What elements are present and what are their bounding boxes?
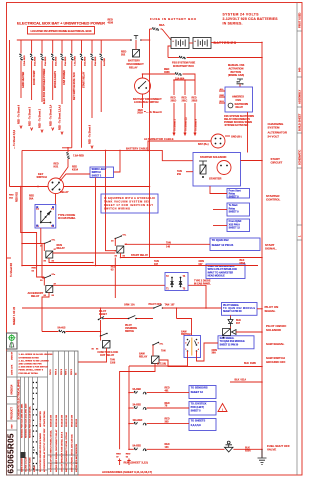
pushbutton glyph	[237, 79, 244, 84]
svg-text:BATTERIES: BATTERIES	[214, 41, 237, 45]
svg-text:— To Sheet 3,5,9: — To Sheet 3,5,9	[13, 129, 16, 149]
svg-text:STARTER SOLENOID: STARTER SOLENOID	[200, 155, 226, 159]
svg-text:ELEC BOX SWITCHED POWER: ELEC BOX SWITCHED POWER	[43, 68, 46, 104]
svg-text:REVISED PER ECN 4312 AND 4250: REVISED PER ECN 4312 AND 4250	[25, 403, 28, 438]
alternator cable wire	[148, 141, 211, 150]
svg-text:7.5A-RED: 7.5A-RED	[74, 56, 77, 66]
svg-text:PORTION OF KEY SWITCH PANEL DE: PORTION OF KEY SWITCH PANEL DETAIL	[50, 429, 53, 472]
svg-text:5A-RED: 5A-RED	[133, 445, 142, 448]
svg-text:1108: 1108	[110, 361, 116, 364]
wire diode box down	[40, 228, 42, 244]
svg-text:LOCKABLE SWITCH: LOCKABLE SWITCH	[134, 101, 159, 104]
svg-text:SWITCH: SWITCH	[92, 172, 101, 174]
blue box from IQAN XS2	[227, 219, 250, 232]
fuse bank wire 4	[52, 40, 54, 54]
wire solenoid feed from diode	[230, 327, 232, 329]
svg-text:2,3,4,5,9: 2,3,4,5,9	[191, 423, 202, 427]
AMEREX pins	[219, 91, 225, 103]
wire stub to start relay box	[213, 209, 227, 211]
svg-text:40A-RED: 40A-RED	[55, 56, 58, 66]
svg-text:50A-RED: 50A-RED	[34, 56, 37, 66]
title block outline	[7, 351, 79, 475]
wire below fuse 1	[20, 61, 22, 99]
wire diagonal to battery 1	[162, 29, 171, 40]
wire key switch bottom	[55, 194, 57, 205]
svg-text:REV: REV	[12, 424, 14, 429]
wire below lockable switch	[142, 94, 144, 108]
pilot override switch	[128, 318, 130, 320]
svg-text:GRID HEATER: GRID HEATER	[22, 71, 25, 88]
svg-text:017: 017	[236, 322, 241, 325]
fuse column feeder dots	[128, 392, 130, 394]
svg-text:RED - To Sheet 2,3,4,6: RED - To Sheet 2,3,4,6	[59, 104, 62, 130]
svg-text:RED: RED	[126, 454, 131, 456]
svg-text:201B: 201B	[192, 99, 198, 102]
svg-text:60A: 60A	[159, 23, 165, 27]
edge connector To Sheet 8,2	[7, 257, 12, 259]
fuse bank wire 9	[100, 40, 102, 54]
svg-text:SHEET 9: SHEET 9	[229, 211, 240, 214]
svg-text:7.5A-RED: 7.5A-RED	[73, 155, 84, 158]
svg-text:BLK: BLK	[244, 362, 249, 365]
svg-text:DWG BY: DWG BY	[12, 351, 14, 360]
wire start relay coil down	[120, 253, 122, 258]
svg-text:BATTERY CABLE: BATTERY CABLE	[126, 146, 148, 150]
svg-text:157: 157	[171, 304, 176, 307]
svg-text:BUILD SHEET: BUILD SHEET	[297, 113, 301, 131]
projection symbol trapezoid	[10, 343, 14, 347]
wire AMEREX down to starter	[247, 112, 249, 153]
svg-text:UPDATE DETAIL: UPDATE DETAIL	[43, 410, 46, 427]
svg-text:104: 104	[165, 446, 170, 449]
blue box to sensors	[189, 386, 216, 399]
fuse 3A-RED row	[129, 407, 134, 409]
wire key switch right	[64, 186, 150, 188]
wire start relay down RED 03	[114, 258, 116, 299]
relay run relay K1 coil	[46, 251, 53, 258]
wire accessory output ORN	[53, 284, 165, 286]
svg-text:RELAY: RELAY	[236, 106, 244, 109]
svg-text:4156: 4156	[164, 71, 170, 74]
fuse 10A-RED row	[129, 423, 134, 425]
warning triangle	[218, 404, 227, 412]
svg-text:TAN: TAN	[166, 241, 171, 244]
svg-text:FOR RELAY DETAIL: FOR RELAY DETAIL	[19, 372, 39, 375]
svg-text:RELOCATED GROUND PER ECN 04565: RELOCATED GROUND PER ECN 04565	[39, 432, 42, 472]
svg-text:2-12VOLT 925 CCA BATTERIES: 2-12VOLT 925 CCA BATTERIES	[223, 17, 279, 21]
svg-text:RELAY: RELAY	[139, 356, 148, 359]
merge node wires key switch feed	[62, 148, 72, 152]
wire run relay coil bottom	[49, 258, 93, 263]
fuse F13 (30A-RED)	[41, 54, 43, 57]
svg-text:2. ALL WIRES TO BE LOOMED: 2. ALL WIRES TO BE LOOMED	[19, 359, 50, 362]
svg-text:353: 353	[165, 420, 170, 423]
fuse F17 (20A-RED)	[80, 54, 82, 57]
svg-text:IN SERIES.: IN SERIES.	[223, 21, 243, 25]
connector stub 2	[127, 459, 130, 466]
wire ORN 11A pilot line	[22, 307, 153, 309]
wire override riser	[176, 308, 178, 319]
svg-text:013B: 013B	[250, 362, 256, 365]
fuse 5A-RED row	[129, 448, 134, 450]
svg-text:BATTERY: BATTERY	[128, 59, 140, 63]
fuel shut off valve glyph	[225, 445, 234, 452]
svg-text:KS1: KS1	[54, 165, 59, 168]
svg-text:ACCESSORIES (SHEET 3,11,14,1: ACCESSORIES (SHEET 3,11,14,16,17)	[102, 470, 152, 474]
wire accessory to fuse row	[42, 331, 59, 333]
wire drop RED 201B	[194, 80, 196, 95]
wire below fuse 8	[91, 61, 93, 119]
label GND (B-)	[225, 135, 230, 137]
svg-text:SHEET 2: SHEET 2	[92, 175, 102, 177]
svg-text:BATTERY DISCONNECT DETAIL ECN: BATTERY DISCONNECT DETAIL ECN 44	[65, 432, 68, 472]
wire fuse out	[183, 74, 196, 80]
svg-text:RELAY: RELAY	[60, 190, 69, 194]
long bus 2	[22, 265, 258, 267]
projection symbol circle	[9, 335, 14, 340]
fuse 15A-604	[175, 73, 178, 75]
svg-text:(INSIDE CAB): (INSIDE CAB)	[228, 74, 244, 77]
svg-text:TO IQAN XS2: TO IQAN XS2	[212, 238, 229, 242]
saw switch contacts	[187, 339, 189, 341]
wire fuse out 5A-RED	[147, 392, 189, 394]
wire 60A vertical	[149, 29, 151, 74]
svg-text:10A-RED: 10A-RED	[133, 419, 143, 422]
battery cable wire	[22, 150, 193, 160]
blue box saw signal	[218, 336, 254, 349]
svg-text:IN CAB PANEL: IN CAB PANEL	[58, 217, 76, 220]
svg-text:AND CANISTER: AND CANISTER	[39, 411, 42, 427]
fuse bank wire 5	[61, 40, 63, 54]
svg-text:5A-RED: 5A-RED	[103, 57, 106, 66]
blue box to IQAN XS2 pin 24	[210, 238, 260, 251]
svg-text:PANEL DETAIL, SHEET 9: PANEL DETAIL, SHEET 9	[19, 369, 44, 372]
svg-text:TO IQAN XS2 MODULE: TO IQAN XS2 MODULE	[220, 340, 246, 343]
svg-text:SHEET 12 PIN 30: SHEET 12 PIN 30	[220, 345, 239, 347]
title block vertical dividers	[17, 351, 75, 475]
arrow wire end 1	[20, 126, 22, 129]
arrow wire end 2	[31, 128, 33, 131]
wire RED 4156 row	[143, 73, 176, 75]
svg-text:63065R05: 63065R05	[6, 433, 15, 473]
svg-text:REV A: REV A	[54, 368, 57, 375]
saw switch actuator bar	[191, 338, 193, 356]
blue box to start relay	[227, 203, 250, 216]
svg-text:SWITCH WIRING: SWITCH WIRING	[104, 208, 130, 211]
wire fuse to pilot reset	[65, 331, 100, 333]
svg-text:7/5/13: 7/5/13	[50, 369, 52, 375]
svg-text:RUN (SHEET 3,12): RUN (SHEET 3,12)	[124, 460, 148, 464]
wire 60A drop to key line	[149, 74, 151, 258]
svg-text:3. SEE SHEET 2 FOR SWITCH: 3. SEE SHEET 2 FOR SWITCH	[19, 367, 49, 369]
alternator connector circle	[211, 134, 225, 148]
saw switch box	[184, 336, 201, 358]
wire fuse out 3A-RED	[147, 407, 189, 409]
svg-text:START RELAY: START RELAY	[83, 71, 86, 88]
svg-text:INPUT TO HARVESTER: INPUT TO HARVESTER	[208, 271, 234, 274]
svg-text:GAUGE COLOR: GAUGE COLOR	[25, 456, 28, 472]
wire below fuse 6	[71, 61, 73, 148]
projection symbol box	[7, 333, 18, 349]
wire into key switch	[59, 159, 68, 180]
wire diode top to pilot signal box	[230, 315, 232, 317]
fuse bank wire 1	[20, 40, 22, 54]
svg-text:KS14: KS14	[72, 168, 79, 171]
relay start relay K3 contact	[115, 238, 117, 240]
svg-text:RED - To Sheet 2,4: RED - To Sheet 2,4	[49, 104, 52, 126]
fuse F12 (50A-RED)	[30, 54, 32, 57]
svg-text:30A-RED: 30A-RED	[94, 56, 97, 66]
wire BLK 011A	[230, 381, 262, 383]
svg-text:ALTERNATOR CABLE: ALTERNATOR CABLE	[144, 137, 174, 141]
pilot on-off solenoid valve	[223, 329, 231, 336]
svg-text:GND (B-): GND (B-)	[231, 135, 242, 138]
svg-text:20A-RED: 20A-RED	[83, 56, 86, 66]
wire below fuse 3	[41, 61, 43, 103]
ks acc riser	[95, 178, 97, 266]
svg-text:ALL: ALL	[220, 88, 225, 91]
pilot reset switch	[100, 308, 102, 318]
ground symbol	[258, 449, 267, 464]
svg-text:30A-RED: 30A-RED	[44, 56, 47, 66]
svg-text:SYSTEM: SYSTEM	[268, 126, 280, 130]
svg-text:PILOT: PILOT	[125, 325, 132, 327]
svg-text:SOLENOID: SOLENOID	[266, 328, 281, 332]
svg-text:REVISED PER ECN 4118 DETAIL: REVISED PER ECN 4118 DETAIL	[29, 405, 32, 438]
svg-text:SWITCH: SWITCH	[37, 175, 47, 179]
svg-text:SHEET 13: SHEET 13	[191, 390, 204, 394]
svg-text:A37009 ECN 4410 REVISION: A37009 ECN 4410 REVISION	[75, 444, 78, 472]
wire saw relay down to fuse column	[120, 364, 155, 450]
svg-text:TO SENSORS: TO SENSORS	[191, 386, 208, 390]
fuse F14 (40A-RED)	[51, 54, 53, 57]
fuse bank wire 3	[41, 40, 43, 54]
svg-text:CAB POWER: CAB POWER	[63, 70, 66, 85]
svg-text:023A: 023A	[245, 449, 251, 452]
svg-text:RED: RED	[9, 195, 14, 197]
svg-text:5A-RED: 5A-RED	[133, 388, 142, 391]
svg-text:BLU: BLU	[220, 101, 225, 103]
svg-text:SHEET 1 OF 22: SHEET 1 OF 22	[13, 306, 16, 325]
svg-text:IN BATTERY BOX: IN BATTERY BOX	[173, 65, 194, 68]
svg-text:RED: RED	[111, 267, 116, 269]
fuse F19 (5A-RED)	[100, 54, 102, 57]
svg-text:146: 146	[166, 246, 171, 249]
svg-text:GROUND OFF: GROUND OFF	[266, 360, 286, 364]
fuse F18 (30A-RED)	[91, 54, 93, 57]
wire TAN 41 stub	[186, 171, 193, 173]
bus BAT+ unswitched	[17, 39, 131, 41]
svg-text:RELAY: RELAY	[31, 295, 40, 298]
svg-text:OTHERWISE NOTED: OTHERWISE NOTED	[19, 357, 40, 359]
svg-text:30A-RED: 30A-RED	[64, 56, 67, 66]
wire saw relay out to bus	[159, 360, 262, 367]
wire below fuse 7	[81, 61, 83, 148]
svg-text:TO IQAN XS2 MODULE: TO IQAN XS2 MODULE	[223, 307, 255, 310]
arrow wire end 8	[91, 146, 93, 149]
legend bullet dots	[33, 382, 34, 383]
fuse bank wire 7	[81, 40, 83, 54]
svg-text:03/02/14 DM: 03/02/14 DM	[55, 415, 58, 427]
wire below fuse 9	[100, 61, 102, 113]
svg-text:07/02/13: 07/02/13	[76, 418, 78, 427]
svg-text:AND CONNECTED PER: AND CONNECTED PER	[19, 363, 43, 366]
relay accessory relay K2 coil	[46, 286, 53, 293]
function lock out relay contact	[100, 335, 102, 337]
svg-text:REV C: REV C	[65, 368, 67, 375]
pilot off switch	[153, 307, 155, 309]
fuse F16 (7.5A-RED)	[70, 54, 72, 57]
svg-text:To Sheet 8/2: To Sheet 8/2	[10, 262, 13, 277]
wire left chain down	[41, 244, 43, 279]
blue box pilot signal to IQAN	[222, 303, 258, 316]
svg-text:BAT (B+): BAT (B+)	[198, 143, 209, 146]
svg-text:1. ALL WIRES 16 GA GXL UNLESS: 1. ALL WIRES 16 GA GXL UNLESS	[19, 353, 54, 356]
svg-text:— To Sheet 9: — To Sheet 9	[146, 111, 162, 114]
wire below fuse 2	[31, 61, 33, 101]
battery minus wire down	[168, 46, 171, 58]
buzzer circle	[228, 103, 233, 108]
battery disconnect relay contact	[130, 39, 132, 41]
svg-text:3A-RED: 3A-RED	[133, 403, 142, 406]
svg-text:202: 202	[121, 54, 126, 57]
wire saw switch pin to saw signal	[197, 343, 219, 361]
title block horizontal dividers	[7, 377, 79, 470]
battery link wire	[189, 42, 193, 44]
fuse 7.5A-RED key switch	[67, 153, 69, 156]
svg-text:201D: 201D	[171, 99, 177, 102]
svg-text:640: 640	[297, 67, 301, 72]
svg-text:FSS: FSS	[236, 98, 242, 102]
svg-text:RED: RED	[116, 454, 121, 456]
svg-text:SIGNAL: SIGNAL	[265, 309, 276, 313]
blue box hydraulic tank vacuum note	[101, 194, 158, 213]
saw relay contact	[152, 344, 154, 346]
svg-text:BLK: BLK	[235, 379, 240, 382]
svg-text:SYSTEM ACTIVATED: SYSTEM ACTIVATED	[225, 124, 249, 127]
svg-text:04/20/14: 04/20/14	[11, 384, 14, 394]
starter motor circle	[217, 161, 231, 175]
svg-text:OUT RELAY: OUT RELAY	[100, 354, 115, 357]
wire fuse out 5A-RED	[147, 448, 222, 450]
box LOCATED IN UPPER FRAME ELECTRICAL BOX	[28, 27, 95, 35]
svg-text:RED - To Sheet 9: RED - To Sheet 9	[18, 104, 21, 124]
svg-text:WIRE NUMBER: WIRE NUMBER	[22, 457, 24, 472]
wire 60A fuse line	[150, 28, 153, 30]
wire solenoid to bus	[236, 331, 262, 333]
svg-text:WITH A PILOT INTERLOCK: WITH A PILOT INTERLOCK	[208, 268, 238, 271]
wire lockout to table	[78, 348, 107, 362]
type 2 diode box left	[35, 205, 56, 229]
svg-text:RED - To Sheet 3: RED - To Sheet 3	[28, 106, 31, 126]
svg-text:SHEET 9: SHEET 9	[229, 196, 240, 199]
start relay feed wire	[106, 150, 116, 250]
battery disconnect lockable switch circle	[135, 78, 151, 94]
wire below fuse 5	[61, 61, 63, 105]
svg-text:TAN: TAN	[165, 304, 170, 307]
relay run relay K1 contact	[44, 243, 46, 245]
svg-text:RED: RED	[220, 95, 225, 97]
svg-text:4156: 4156	[108, 22, 114, 25]
svg-text:RED - To Sheet 9: RED - To Sheet 9	[89, 124, 92, 144]
svg-text:SHEET 12 PIN 24: SHEET 12 PIN 24	[212, 243, 234, 247]
svg-text:11/02/13 DM: 11/02/13 DM	[66, 415, 68, 427]
wire stub from start relay box	[210, 186, 227, 194]
wire run relay output	[53, 252, 116, 254]
svg-text:REVISED PER ECN 4480 AND 4491: REVISED PER ECN 4480 AND 4491	[21, 403, 24, 438]
relay start relay K3 coil	[117, 246, 124, 253]
svg-text:24 VOLT: 24 VOLT	[268, 134, 280, 138]
starter solenoid glyph	[199, 161, 207, 165]
svg-text:202A: 202A	[137, 112, 143, 115]
svg-text:PILOT SIGNAL: PILOT SIGNAL	[223, 304, 240, 307]
legend dark cell	[21, 452, 26, 458]
svg-text:5A-#13: 5A-#13	[58, 327, 67, 330]
svg-text:SAW SIGNAL: SAW SIGNAL	[220, 337, 235, 340]
svg-text:HEAD MODULE: HEAD MODULE	[208, 274, 226, 277]
wire pilot off to pilot signal box	[163, 307, 222, 309]
right title strip divider	[296, 3, 298, 476]
stub left bus to run relay	[22, 243, 41, 245]
svg-text:WORK LIGHT: WORK LIGHT	[92, 169, 107, 171]
fuse FSS system	[179, 56, 182, 58]
svg-text:TO SHEETS: TO SHEETS	[191, 419, 206, 423]
svg-text:PRODUCT: PRODUCT	[11, 407, 14, 420]
wire accessory coil down	[42, 293, 49, 332]
blue box to joystick pod	[189, 402, 216, 416]
svg-text:09/14/13 DM: 09/14/13 DM	[71, 415, 74, 427]
svg-text:30A: 30A	[29, 197, 34, 200]
svg-text:KEY SWITCH RUN / ACC: KEY SWITCH RUN / ACC	[73, 72, 76, 100]
starter box	[193, 153, 241, 187]
battery 1	[171, 38, 189, 49]
blue box to sheets	[189, 419, 216, 431]
right vertical bus	[261, 42, 263, 457]
work light feed wire	[113, 150, 120, 172]
svg-text:RED - To Sheet 2: RED - To Sheet 2	[39, 108, 42, 128]
fuse 5A-#13	[59, 330, 62, 332]
svg-text:STARTER: STARTER	[209, 177, 222, 181]
svg-text:ASSEMBLY: ASSEMBLY	[297, 90, 301, 104]
svg-text:SYSTEM 24 VOLTS: SYSTEM 24 VOLTS	[223, 13, 260, 17]
relay accessory relay K2 contact	[44, 277, 46, 279]
wire button to relay box	[239, 84, 241, 87]
svg-text:CIRCUIT BREAKER FUSE DETAIL EC: CIRCUIT BREAKER FUSE DETAIL ECN 4	[61, 431, 64, 472]
svg-text:481: 481	[165, 389, 170, 392]
svg-text:RED: RED	[32, 268, 37, 270]
svg-text:REV B: REV B	[61, 368, 63, 375]
arrow wire end 5	[61, 132, 63, 135]
svg-text:WORK LIGHTS: WORK LIGHTS	[54, 71, 57, 88]
battery 2	[193, 38, 211, 49]
svg-text:FUSE IN BATTERY BOX: FUSE IN BATTERY BOX	[150, 17, 196, 21]
svg-text:033A: 033A	[240, 262, 246, 265]
arrow wire end 3	[41, 130, 43, 133]
legend dashes	[33, 450, 38, 470]
wire drop RED 201D	[173, 80, 175, 95]
wire FSS fuse line	[168, 57, 179, 59]
fuse 5A-RED row	[129, 392, 134, 394]
long bus BLK 033A	[121, 257, 263, 259]
fuse F15 (30A-RED)	[61, 54, 63, 57]
svg-text:SWITCH: SWITCH	[125, 331, 134, 333]
wire saw loop to fuse feeder	[128, 366, 130, 449]
svg-text:CIRCUIT NAME: CIRCUIT NAME	[29, 457, 32, 472]
svg-text:RED KS2: RED KS2	[17, 191, 19, 202]
svg-text:DISCONNECT: DISCONNECT	[127, 62, 145, 66]
svg-text:RELAY: RELAY	[57, 247, 66, 250]
wire stub from IQAN box	[213, 225, 227, 227]
